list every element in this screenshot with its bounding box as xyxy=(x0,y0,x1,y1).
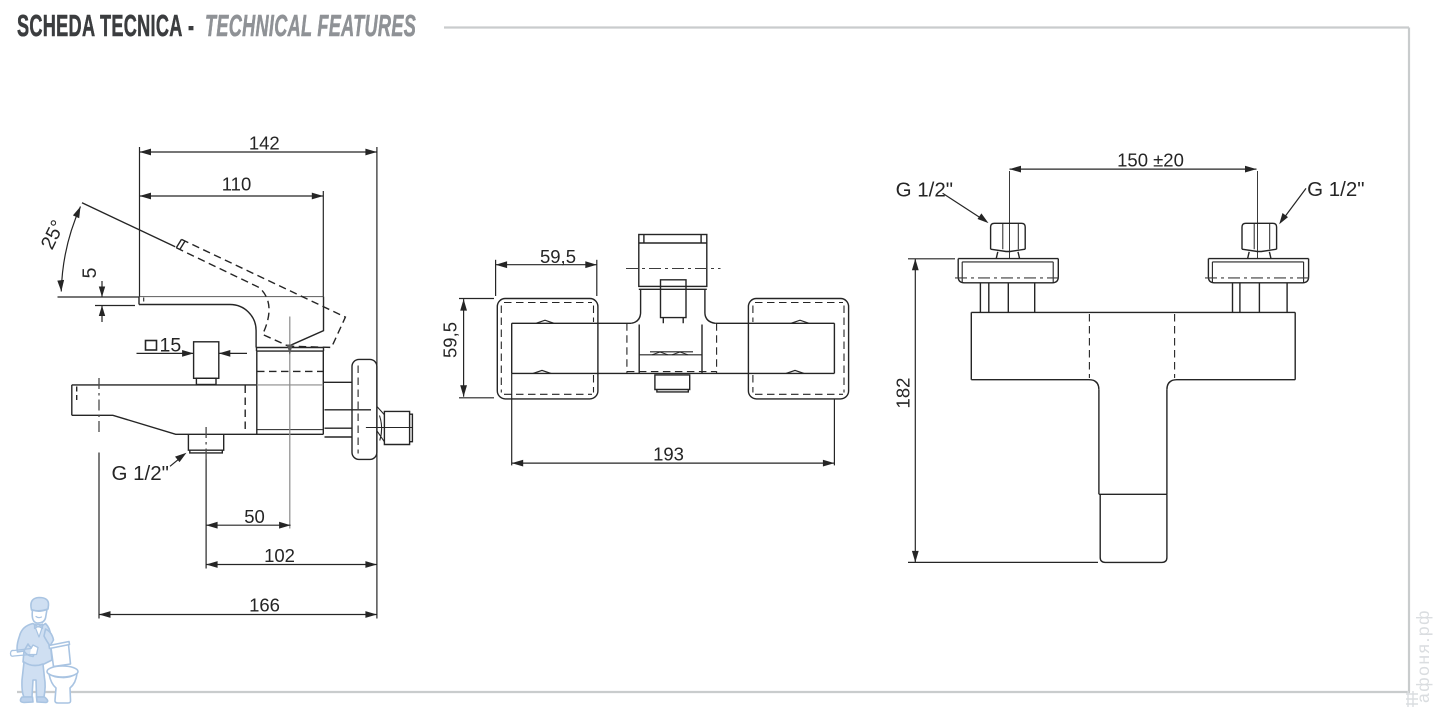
top view: left supply nut xyxy=(991,223,1026,249)
front view: centre column inner walls xyxy=(639,325,702,374)
side view: plate end hidden dash xyxy=(143,298,145,305)
front view: handle block xyxy=(639,235,707,287)
mascot plumber face xyxy=(32,610,47,624)
25deg baseline xyxy=(58,296,140,298)
side view: connector neck lines xyxy=(323,382,371,437)
top view: right nut bottom xyxy=(1242,249,1277,251)
side view: body axis centerline with arrow xyxy=(289,317,291,529)
side view: hidden channel dashed xyxy=(244,386,246,434)
mascot plumber right arm resting on tank xyxy=(44,629,54,646)
svg-text:110: 110 xyxy=(222,174,252,195)
front view: column hidden bottom dash xyxy=(627,371,717,373)
G1/2 leader xyxy=(170,455,184,467)
G1/2 right leader xyxy=(1282,188,1306,221)
top view: column hidden edges dashed xyxy=(1089,314,1174,378)
front view: centre column hidden edges xyxy=(627,323,717,373)
top view: right flange centerline xyxy=(1205,277,1311,279)
mascot toilet bowl rim xyxy=(47,666,78,677)
frame bottom rule xyxy=(17,691,1410,693)
front view: handle pivot centerline xyxy=(626,268,721,270)
side view: spout axis centerline xyxy=(98,378,100,434)
front view: right plate hidden inset dashes xyxy=(753,303,844,395)
G1/2 left leader xyxy=(943,193,985,220)
dim 110 line xyxy=(140,195,324,197)
side view: spout tube top edge xyxy=(72,384,257,386)
svg-text:59,5: 59,5 xyxy=(540,246,576,267)
front view: handle top band xyxy=(639,235,707,244)
front view: right wall plate xyxy=(748,299,848,399)
front view: aerator thread line xyxy=(639,352,702,355)
side view: handle lever end cap dashes xyxy=(176,239,185,249)
svg-text:182: 182 xyxy=(892,378,913,409)
extension fitting axis xyxy=(205,460,207,569)
svg-text:15: 15 xyxy=(160,335,182,357)
dim 5 arrows xyxy=(101,281,103,297)
wall plane extension line xyxy=(376,147,378,619)
dim 182 line xyxy=(914,259,916,563)
frame top rule xyxy=(444,26,1409,28)
side view: body column xyxy=(257,351,324,434)
frame right rule xyxy=(1408,28,1410,693)
svg-text:50: 50 xyxy=(244,506,265,527)
dim 59,5 vertical line xyxy=(463,299,465,397)
top view: spout lower block xyxy=(1100,494,1167,562)
svg-text:G 1/2": G 1/2" xyxy=(896,178,953,201)
svg-text:166: 166 xyxy=(249,595,280,616)
svg-text:193: 193 xyxy=(653,444,684,465)
top view: left nut facets xyxy=(1003,223,1019,249)
front view: thread seam marks xyxy=(652,352,688,355)
side view: body hidden edge dashed xyxy=(257,370,323,372)
top view: right supply axis centerline xyxy=(1257,171,1259,258)
top view: right flange chamfer lines xyxy=(1212,262,1303,283)
dim 5 extension xyxy=(95,305,135,307)
mascot plumber cap xyxy=(31,598,49,611)
side view: fitting axis centerline xyxy=(205,427,207,460)
svg-text:25°: 25° xyxy=(37,217,70,253)
top view: left nut bottom xyxy=(991,249,1026,251)
dim 59,5 horizontal extensions xyxy=(495,260,497,296)
side view: top plate of body xyxy=(139,297,256,348)
top view: left flange centerline xyxy=(955,277,1061,279)
dim 193 extensions xyxy=(511,373,513,465)
front view: left plate hidden inset dashes xyxy=(501,303,593,395)
dim 110 extension right xyxy=(322,191,324,297)
front view: body bar outline xyxy=(512,323,835,373)
top view: right supply nut xyxy=(1242,223,1277,249)
dim 102 line xyxy=(206,564,377,566)
top view: column joint line xyxy=(1099,493,1167,495)
svg-text:102: 102 xyxy=(264,545,295,566)
svg-text:150 ±20: 150 ±20 xyxy=(1117,149,1184,170)
mascot plumber jacket xyxy=(17,624,52,666)
svg-text:G 1/2": G 1/2" xyxy=(112,462,169,485)
front view: collar under handle xyxy=(639,289,707,313)
dim 59,5 vertical extensions xyxy=(459,298,494,300)
dim 166 line xyxy=(99,614,377,616)
side view: top plate top edge thin xyxy=(139,296,324,298)
side view: diverter knob base xyxy=(196,378,216,384)
side view: eccentric cone behind flange xyxy=(377,407,385,442)
top view: bar bottom with fillets into column xyxy=(971,380,1295,390)
side view: tail axis line xyxy=(366,427,413,429)
dim 150±20 line xyxy=(1010,168,1257,170)
mascot plumber legs xyxy=(22,662,45,697)
top view: spout column xyxy=(1099,390,1167,495)
top view: left threaded stubs xyxy=(980,283,1034,313)
side view: cap ring xyxy=(257,348,324,352)
dim sq15 line xyxy=(137,352,194,354)
front view: aerator xyxy=(655,375,690,392)
side view: spout tip hidden dash xyxy=(76,387,78,401)
top view: right nut facets xyxy=(1254,223,1270,249)
top view: left supply axis centerline xyxy=(1009,171,1011,258)
mascot toilet tank lid xyxy=(49,642,70,649)
side view: wall flange rounded xyxy=(352,359,377,459)
title xyxy=(17,8,699,44)
front view: collar flares xyxy=(631,314,715,324)
side view: handle dashed outline xyxy=(176,239,345,347)
side view: cartridge cap solid edges xyxy=(289,297,324,347)
dim 142 line xyxy=(140,151,377,153)
mascot plumber shoes xyxy=(20,697,47,703)
dim 50 line xyxy=(206,524,291,526)
sq15 square symbol xyxy=(146,341,157,351)
top view: right threaded stubs xyxy=(1233,283,1288,313)
svg-text:афоня.рф: афоня.рф xyxy=(1413,609,1433,703)
dim 142 extension left xyxy=(139,147,141,297)
extension spout axis xyxy=(98,453,100,619)
side view: handle lever solid 25deg line xyxy=(82,203,175,247)
side view: wall flange hidden dash xyxy=(357,366,359,454)
top view: body bar xyxy=(971,312,1295,379)
top view: right nut foot xyxy=(1248,252,1271,259)
dim 59,5 horizontal line xyxy=(496,264,597,266)
mascot toilet tank xyxy=(51,645,71,667)
side view: body inner line xyxy=(257,429,324,431)
25deg arc xyxy=(61,207,80,292)
mascot plumber bowtie xyxy=(35,624,43,629)
front view: cartridge stem square xyxy=(661,280,687,324)
front view: bar seam marks xyxy=(533,320,809,373)
mascot toilet bowl body xyxy=(49,674,77,704)
side view: spout bottom profile xyxy=(72,415,323,434)
side view: spout top edge behind body (thin) xyxy=(257,384,324,386)
svg-text:59,5: 59,5 xyxy=(439,322,460,358)
top view: left flange chamfer lines xyxy=(962,262,1053,283)
svg-text:142: 142 xyxy=(249,133,280,154)
side view: diverter knob square xyxy=(194,342,219,379)
mascot plumber chest shirt xyxy=(34,624,43,637)
mascot plumber ear-smile xyxy=(36,617,42,618)
dim 182 extension top xyxy=(908,258,955,260)
svg-text:5: 5 xyxy=(79,267,101,278)
mascot plumber left arm and wrench xyxy=(24,644,36,657)
dim 193 line xyxy=(512,462,835,464)
dim 182 extension bottom xyxy=(908,561,1098,563)
side view: shower outlet fitting G1/2 xyxy=(188,434,223,453)
mascot wrench xyxy=(11,645,39,656)
watermark grid glyph xyxy=(1406,691,1418,707)
side view: wall-side hex nut xyxy=(384,411,412,444)
top view: right eccentric flange xyxy=(1208,259,1308,283)
svg-text:G 1/2": G 1/2" xyxy=(1307,178,1364,201)
top view: left nut foot xyxy=(996,252,1019,259)
side view: spout left end xyxy=(71,385,73,415)
top view: left eccentric flange xyxy=(958,259,1058,283)
front view: left wall plate xyxy=(497,299,598,399)
